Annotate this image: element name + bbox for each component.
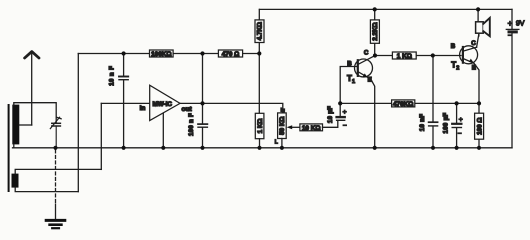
wiper arrow	[290, 126, 300, 128]
op-amp U1 MW-IC	[140, 85, 193, 120]
svg-text:out: out	[182, 106, 193, 113]
wire T1 collector to T2 base	[375, 55, 461, 57]
wire base line to 470K and T2 emitter node	[340, 102, 479, 104]
svg-text:100 n F: 100 n F	[188, 113, 195, 136]
wire L1 top to variable capacitor	[14, 103, 56, 123]
battery BT1 9V	[506, 9, 524, 147]
ferrite rod	[8, 104, 10, 192]
wire top bias line	[78, 53, 259, 55]
resistor R8 470K	[392, 100, 415, 108]
capacitor C4 10uF electrolytic	[327, 103, 347, 129]
resistor R5 10K	[300, 124, 323, 132]
svg-text:2.2KΩ: 2.2KΩ	[372, 22, 379, 40]
resistor R4 1K vertical	[255, 113, 264, 148]
mechanical dashed link to ground	[55, 150, 57, 204]
resistor R3 4.7K	[255, 20, 264, 43]
wire output node riser	[202, 54, 204, 124]
node: R7 / C5 / T2 base junction	[431, 53, 435, 57]
node: R4 bottom on ground rail	[257, 146, 261, 150]
svg-text:470 Ω: 470 Ω	[222, 51, 240, 58]
coil L1	[12, 105, 19, 145]
svg-text:B: B	[347, 60, 352, 67]
svg-text:2: 2	[456, 66, 459, 72]
speaker LS1	[476, 9, 490, 36]
transistor Q2 T2	[451, 34, 479, 104]
svg-text:−: −	[458, 131, 462, 138]
wire supply branch riser	[258, 9, 260, 113]
svg-text:−: −	[343, 122, 347, 129]
node: R9 bottom on ground rail	[477, 146, 481, 150]
ground	[46, 220, 65, 228]
svg-text:470KΩ: 470KΩ	[393, 101, 413, 108]
svg-text:100 Ω: 100 Ω	[476, 118, 483, 135]
wire IC ground pin	[162, 113, 164, 147]
svg-text:+: +	[343, 109, 347, 116]
node: R6 top on supply rail	[373, 7, 377, 11]
svg-text:in: in	[140, 105, 146, 112]
capacitor C2 10nF	[109, 54, 129, 148]
wire 10K to C4	[323, 121, 338, 128]
svg-text:1 KΩ: 1 KΩ	[257, 119, 264, 134]
svg-text:MW-IC: MW-IC	[153, 101, 173, 108]
node: C2 bottom on ground rail	[122, 146, 126, 150]
wire IC output	[180, 103, 283, 113]
wire L1 bottom to ground rail	[13, 144, 15, 148]
resistor R1 100K	[150, 50, 174, 58]
antenna	[25, 52, 39, 125]
node: C3 bottom on ground rail	[200, 146, 204, 150]
wire L2 bottom to feedback riser	[15, 187, 78, 191]
resistor R7 1K horizontal	[392, 52, 416, 60]
resistor R9 100 ohm	[475, 103, 484, 147]
svg-text:10 nF: 10 nF	[419, 114, 426, 131]
node: bias line / C2 top	[122, 51, 126, 55]
resistor R6 2.2K	[370, 9, 379, 55]
capacitor C3 100nF	[188, 113, 208, 148]
svg-text:C: C	[364, 49, 369, 56]
svg-text:10 KΩ: 10 KΩ	[302, 125, 321, 132]
node: tuning capacitor rotor to ground rail	[53, 146, 57, 150]
svg-text:E: E	[472, 65, 476, 72]
node: R1/R2 junction to output riser	[200, 51, 204, 55]
potentiometer P1 50K	[275, 108, 286, 148]
node: IC ground pin on ground rail	[161, 146, 165, 150]
svg-text:10 n F: 10 n F	[109, 66, 116, 86]
node: R2/R3/R4 junction	[257, 51, 261, 55]
svg-text:L: L	[275, 140, 278, 146]
node: speaker top on supply rail	[476, 7, 480, 11]
svg-text:9V: 9V	[516, 21, 525, 28]
svg-text:E: E	[368, 77, 372, 84]
ground rail	[13, 147, 513, 149]
node: T1 base / C4 / R8 junction	[338, 101, 342, 105]
node: R8 / C6 junction	[455, 101, 459, 105]
transistor Q1 T1	[347, 49, 375, 148]
wire L2 top to IC input riser	[15, 169, 101, 173]
svg-text:10 µF: 10 µF	[327, 106, 334, 123]
wire IC input	[101, 102, 149, 104]
top supply rail	[260, 8, 513, 10]
svg-text:+: +	[508, 19, 513, 28]
resistor R2 470 ohm	[218, 50, 242, 58]
wire riser L2 top to IC input	[100, 103, 102, 169]
node: P1 bottom on ground rail	[280, 146, 284, 150]
wire riser L2 bottom to top bias line	[77, 54, 79, 192]
node: C5 bottom on ground rail	[431, 146, 435, 150]
wire to ground symbol	[55, 204, 57, 219]
svg-text:lg: lg	[281, 108, 285, 114]
coil L2	[12, 174, 19, 188]
node: T1 emitter on ground rail	[373, 146, 377, 150]
svg-text:−: −	[508, 33, 512, 40]
capacitor C6 100uF electrolytic	[442, 103, 462, 147]
capacitor C5 10nF	[419, 56, 438, 148]
svg-text:50 KΩ: 50 KΩ	[279, 117, 286, 135]
node: T2 emitter / R9 top	[477, 101, 481, 105]
svg-text:100KΩ: 100KΩ	[151, 51, 171, 58]
variable capacitor C1	[50, 117, 61, 148]
svg-text:+: +	[459, 117, 463, 124]
svg-text:1: 1	[352, 79, 355, 85]
svg-text:C: C	[471, 40, 476, 47]
svg-text:4.7KΩ: 4.7KΩ	[257, 22, 264, 40]
wire T1 base riser	[340, 67, 357, 104]
svg-text:1 KΩ: 1 KΩ	[397, 53, 412, 60]
node: T1 collector / R6 / R7 junction	[373, 53, 377, 57]
node: C6 bottom on ground rail	[455, 146, 459, 150]
svg-text:100 µF: 100 µF	[442, 113, 449, 134]
svg-text:B: B	[451, 43, 456, 50]
wire antenna tap	[19, 124, 32, 126]
node: IC output	[200, 101, 204, 105]
